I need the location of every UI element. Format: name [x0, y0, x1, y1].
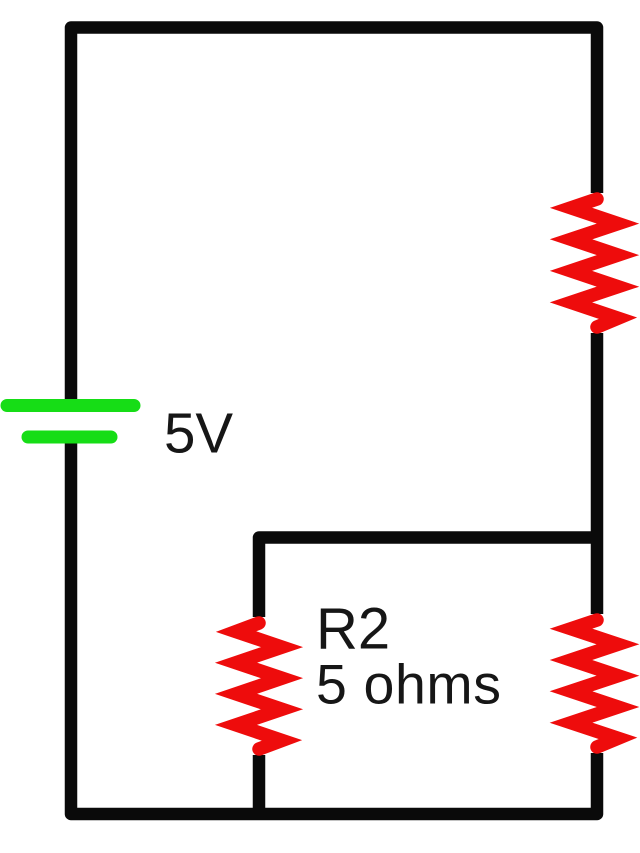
svg-text:5V: 5V: [164, 402, 233, 465]
svg-text:5 ohms: 5 ohms: [316, 654, 502, 716]
svg-text:R2: R2: [316, 597, 390, 662]
